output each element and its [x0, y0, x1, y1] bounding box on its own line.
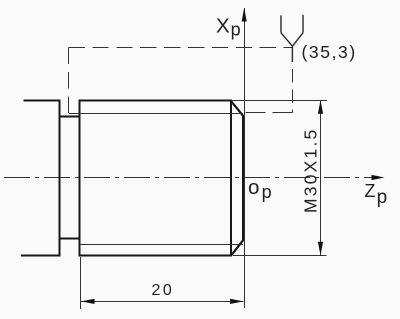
tool symbol left shank	[280, 15, 282, 32]
part outline: left section top edge	[24, 100, 59, 102]
dimension M30X1.5: bottom arrowhead	[318, 242, 323, 256]
svg-text:M30X1.5: M30X1.5	[300, 128, 320, 213]
Xp axis line	[244, 8, 246, 308]
part outline: top right chamfer	[231, 101, 244, 116]
part outline: groove left wall	[59, 100, 61, 257]
svg-text:20: 20	[152, 282, 175, 299]
tool path dashed: lower horizontal to part	[244, 112, 293, 114]
svg-text:(35,3): (35,3)	[302, 42, 357, 62]
dimension M30X1.5: top extension line	[231, 100, 327, 102]
dimension 20: right arrowhead	[230, 299, 243, 304]
thread root line (bottom)	[81, 244, 244, 246]
svg-text:p: p	[231, 20, 241, 40]
tool path dashed: left vertical	[68, 48, 70, 114]
svg-text:o: o	[248, 176, 259, 199]
dimension M30X1.5: dimension line	[320, 100, 322, 256]
part outline: groove bottom (top side)	[59, 116, 81, 118]
tool symbol tip tail	[291, 46, 293, 62]
tool symbol left flank	[281, 33, 292, 46]
part outline: right end face	[242, 116, 244, 240]
tool path dashed: right vertical below tool	[292, 62, 294, 113]
part outline: thread end line	[230, 100, 232, 257]
svg-text:Z: Z	[364, 181, 375, 201]
tool symbol right shank	[302, 15, 304, 33]
dimension M30X1.5: top arrowhead	[318, 100, 323, 114]
part outline: bottom right chamfer	[231, 240, 243, 255]
dimension 20: dimension line	[81, 301, 244, 303]
part outline: groove right wall	[79, 100, 81, 257]
thread root line (top)	[69, 113, 243, 115]
centerline / Zp axis line	[4, 177, 373, 179]
Zp axis arrowhead	[372, 175, 385, 180]
dimension 20: extension line	[80, 257, 82, 309]
part outline: groove bottom (bottom side)	[59, 238, 81, 240]
svg-text:X: X	[216, 15, 230, 38]
svg-text:p: p	[262, 182, 272, 202]
Xp axis arrowhead	[242, 8, 247, 22]
svg-text:p: p	[377, 187, 388, 208]
part outline: thread major top edge	[80, 100, 232, 102]
dimension 20: left arrowhead	[81, 299, 94, 304]
part outline: thread major bottom edge	[81, 255, 233, 257]
tool path dashed: top horizontal	[69, 47, 293, 49]
tool symbol right flank	[292, 33, 303, 46]
dimension M30X1.5: bottom extension line	[233, 255, 327, 257]
part outline: left section bottom edge	[21, 255, 61, 257]
